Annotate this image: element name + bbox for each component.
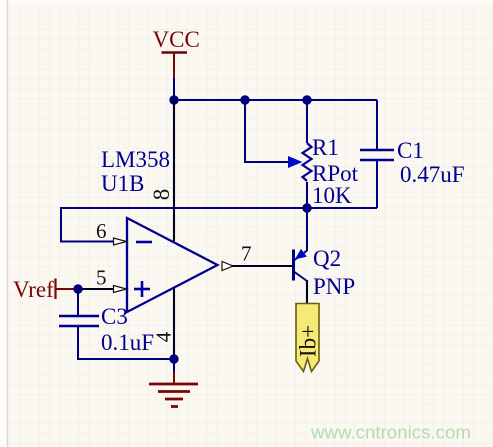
wire wiper branch	[245, 100, 290, 162]
svg-text:Q2: Q2	[313, 246, 341, 271]
svg-text:10K: 10K	[312, 183, 352, 208]
wire Vref to pin5	[78, 288, 113, 290]
svg-text:PNP: PNP	[313, 274, 355, 299]
svg-text:C1: C1	[397, 138, 424, 163]
svg-text:VCC: VCC	[153, 27, 200, 52]
wire C1 bottom drop	[376, 160, 378, 208]
svg-text:0.1uF: 0.1uF	[101, 330, 154, 355]
svg-text:4: 4	[151, 331, 175, 342]
svg-text:6: 6	[96, 219, 107, 243]
node junction at Vref/C3	[73, 284, 82, 293]
wire top rail	[174, 99, 377, 101]
svg-text:7: 7	[241, 242, 252, 266]
ground symbol	[149, 359, 198, 407]
wire C3 top	[77, 289, 79, 316]
wire collector down to port	[306, 280, 308, 304]
svg-text:Ib+: Ib+	[296, 325, 321, 357]
wire op-amp output to Q2 base	[232, 265, 292, 267]
pin 5 arrow	[114, 286, 127, 293]
power symbol VCC	[153, 27, 200, 79]
node junction at R1 bottom x307	[302, 203, 311, 212]
pin 6 arrow	[114, 238, 127, 245]
svg-text:5: 5	[96, 266, 107, 290]
op-amp U1B	[101, 147, 218, 312]
wire VCC vertical	[173, 78, 175, 100]
port Vref	[13, 277, 78, 302]
transistor Q2	[294, 246, 356, 299]
node junction at R1 top x307	[302, 95, 311, 104]
svg-text:Vref: Vref	[13, 277, 54, 302]
wire bottom rail / feedback	[61, 208, 377, 242]
capacitor C3	[59, 304, 154, 355]
sheet border line	[7, 0, 9, 447]
capacitor C1	[360, 138, 465, 187]
wire pin8 drop into op-amp	[173, 100, 175, 241]
svg-text:C3: C3	[101, 304, 128, 329]
node junction at VCC rail x174	[169, 95, 178, 104]
port Ib+	[296, 304, 321, 372]
svg-text:R1: R1	[312, 135, 339, 160]
resistor R1 potentiometer	[303, 100, 359, 208]
node junction at ground	[169, 354, 178, 363]
svg-text:8: 8	[149, 189, 174, 201]
node junction at wiper branch x245	[240, 95, 249, 104]
wiper arrow of potentiometer	[288, 156, 303, 168]
svg-text:LM358: LM358	[101, 147, 170, 172]
wire C1 top drop	[376, 100, 378, 150]
svg-text:0.47uF: 0.47uF	[400, 162, 465, 187]
wire pin4 drop	[173, 288, 175, 359]
pin 7 arrow	[222, 262, 233, 271]
wire emitter up to rail	[306, 208, 308, 251]
svg-text:www.cntronics.com: www.cntronics.com	[310, 422, 471, 443]
svg-text:U1B: U1B	[101, 171, 144, 196]
wire C3 bottom to ground node	[78, 326, 174, 359]
